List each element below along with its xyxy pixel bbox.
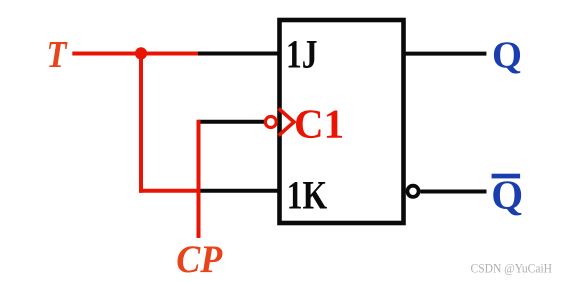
clock edge triangle (red chevron) [279, 109, 294, 136]
overline of Q-bar [492, 174, 520, 179]
wire Q-bar output [421, 190, 487, 194]
svg-text:CP: CP [176, 237, 223, 281]
svg-text:Q: Q [492, 34, 522, 76]
wire C1 clock input (black segment) [199, 120, 265, 124]
wire CP vertical (red) [197, 120, 201, 238]
wire junction down to 1K row (red) [139, 54, 143, 193]
flip-flop box U1 [280, 20, 404, 223]
inversion bubble on Q-bar output [407, 186, 418, 197]
wire 1K input (black segment) [197, 189, 279, 193]
wire 1J input (black segment) [196, 52, 279, 56]
wire T to junction (red) [72, 52, 198, 56]
clock inversion bubble (red) [265, 117, 276, 128]
svg-text:CSDN @YuCaiH: CSDN @YuCaiH [471, 261, 553, 275]
svg-text:1J: 1J [286, 32, 318, 77]
wire junction row to 1K input (red) [139, 189, 201, 193]
svg-text:C1: C1 [294, 100, 344, 146]
svg-text:T: T [47, 34, 68, 76]
svg-text:1K: 1K [287, 173, 328, 218]
wire Q output [404, 52, 486, 56]
junction dot at T branch [135, 47, 147, 59]
